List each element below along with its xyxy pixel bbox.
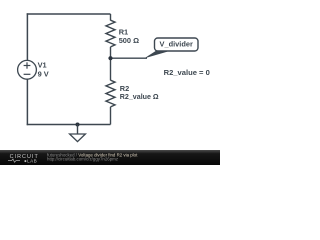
wire R2 bottom to bottom rail bbox=[110, 107, 112, 125]
footer bar bbox=[0, 150, 220, 165]
wire left rail bottom (V1 minus terminal to bottom rail) bbox=[26, 79, 28, 125]
ground bbox=[70, 125, 86, 142]
svg-text:●LAB: ●LAB bbox=[24, 158, 37, 163]
label R1 value bbox=[119, 28, 139, 46]
wire top rail bbox=[27, 13, 111, 15]
svg-text:R2: R2 bbox=[120, 84, 129, 93]
svg-text:9 V: 9 V bbox=[38, 70, 49, 79]
svg-text:V1: V1 bbox=[38, 61, 47, 70]
svg-text:R2_value Ω: R2_value Ω bbox=[120, 93, 159, 101]
footer title text bbox=[47, 153, 138, 162]
wire node V_divider to R2 top bbox=[110, 58, 112, 80]
resistor R1 bbox=[106, 20, 115, 47]
svg-text:R2_value = 0: R2_value = 0 bbox=[164, 68, 210, 77]
wire top rail to R1 top bbox=[110, 14, 112, 21]
resistor R2 bbox=[106, 80, 115, 107]
label R2 value bbox=[120, 84, 159, 101]
svg-text:V_divider: V_divider bbox=[160, 40, 193, 49]
voltage source V1 bbox=[18, 60, 37, 79]
ground node junction dot bbox=[76, 123, 80, 127]
wire bottom rail bbox=[27, 124, 111, 126]
node V_divider junction dot bbox=[108, 56, 112, 60]
svg-text:http://circuitlab.com/c/z/ggy7: http://circuitlab.com/c/z/ggy7n26pmz bbox=[47, 157, 118, 162]
label V1 value bbox=[38, 61, 49, 79]
svg-text:R1: R1 bbox=[119, 28, 128, 37]
footer CircuitLab logo bbox=[8, 154, 39, 164]
svg-text:500 Ω: 500 Ω bbox=[119, 36, 139, 45]
flag V_divider (voltage probe) bbox=[144, 38, 198, 58]
wire probe stub (node V_divider to flag tail) bbox=[111, 57, 148, 59]
wire left rail top (top rail to V1 plus terminal) bbox=[26, 13, 28, 60]
wire R1 bottom to node V_divider bbox=[110, 47, 112, 58]
